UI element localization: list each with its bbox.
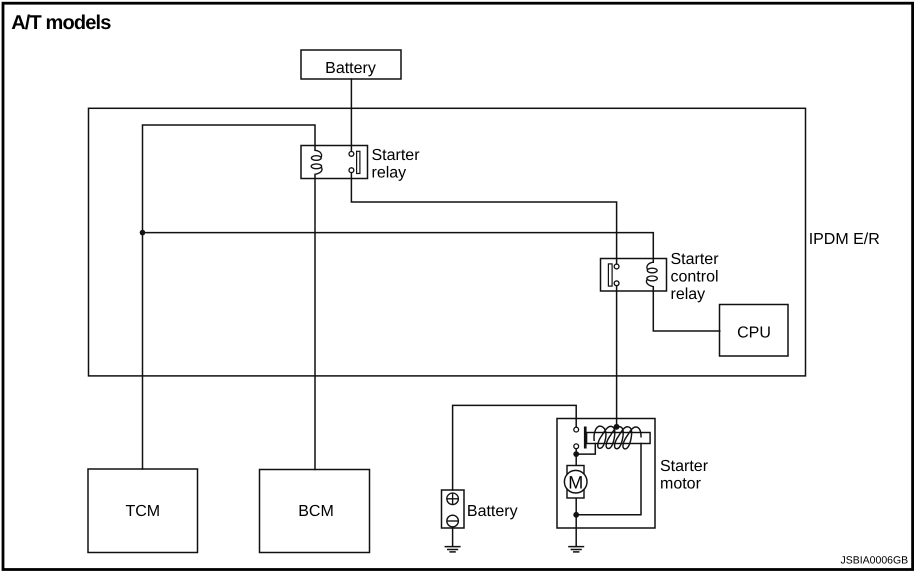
- svg-text:relay: relay: [671, 286, 706, 303]
- svg-text:M: M: [568, 472, 583, 492]
- svg-text:Battery: Battery: [325, 60, 376, 77]
- svg-text:A/T models: A/T models: [11, 12, 111, 34]
- svg-text:Starter: Starter: [660, 458, 709, 475]
- svg-text:BCM: BCM: [298, 503, 334, 520]
- svg-text:control: control: [671, 269, 719, 286]
- svg-text:Battery: Battery: [467, 503, 518, 520]
- svg-text:TCM: TCM: [125, 503, 160, 520]
- svg-text:motor: motor: [660, 475, 702, 492]
- svg-text:JSBIA0006GB: JSBIA0006GB: [840, 555, 908, 567]
- svg-text:CPU: CPU: [737, 325, 771, 342]
- svg-text:relay: relay: [372, 164, 407, 181]
- svg-text:IPDM E/R: IPDM E/R: [809, 231, 880, 248]
- svg-text:Starter: Starter: [671, 251, 720, 268]
- svg-text:Starter: Starter: [372, 147, 421, 164]
